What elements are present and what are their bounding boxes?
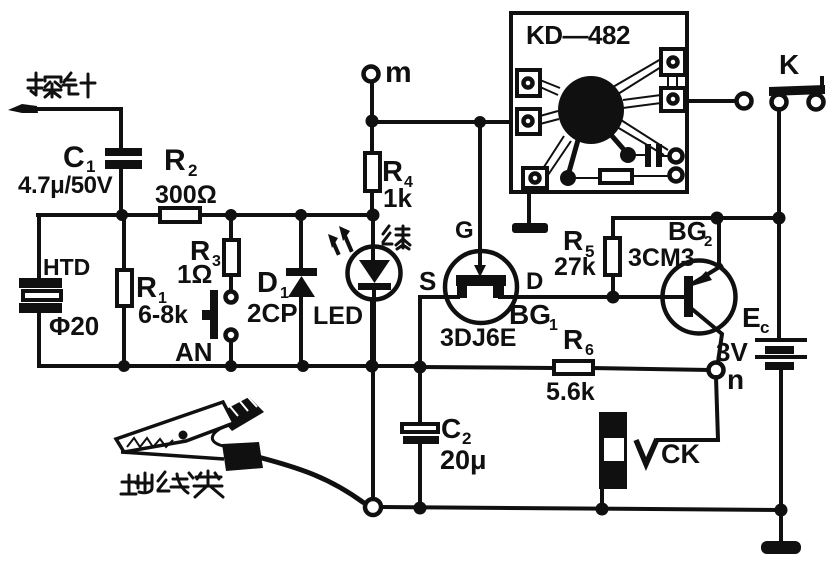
module solder dot 2 xyxy=(620,147,636,163)
svg-text:3CM3: 3CM3 xyxy=(628,244,695,272)
ground clip upper boot xyxy=(217,397,264,431)
wire probe to C1 xyxy=(30,109,121,149)
ground clip lower jaw xyxy=(121,452,224,459)
svg-text:D: D xyxy=(257,267,278,299)
svg-text:K: K xyxy=(779,49,799,80)
transistor BG1 (FET 3DJ6E) xyxy=(420,122,684,323)
svg-text:R: R xyxy=(563,324,583,355)
capacitor C2 xyxy=(402,367,439,508)
node BG2 emitter junction xyxy=(711,212,724,225)
svg-text:AN: AN xyxy=(175,337,213,367)
node battery column bottom xyxy=(775,504,788,517)
svg-text:HTD: HTD xyxy=(43,254,90,280)
node LED bottom junction xyxy=(366,360,379,373)
svg-text:BG: BG xyxy=(668,216,707,246)
top-left rail xyxy=(38,213,373,217)
module trace blob to lower-right ring xyxy=(617,120,668,155)
transistor BG2 (3CM3) xyxy=(663,218,736,362)
ground clip lower boot xyxy=(222,442,263,471)
resistor R1 xyxy=(117,215,132,366)
resistor R3 xyxy=(224,215,239,291)
svg-text:R: R xyxy=(136,272,157,304)
node C2 bottom xyxy=(414,502,427,515)
bottom-left rail xyxy=(39,364,420,368)
node C1/R1 junction xyxy=(116,209,128,221)
svg-text:20μ: 20μ xyxy=(440,445,487,475)
module trace blob to top-right pad xyxy=(613,59,661,94)
capacitor C1 plates xyxy=(105,148,142,156)
LED light arrows xyxy=(328,226,351,253)
svg-text:2CP: 2CP xyxy=(247,298,298,328)
ground under module xyxy=(512,223,548,233)
module trace blob to top-left pad xyxy=(540,80,560,95)
node output terminal circle xyxy=(737,94,752,109)
module solder dot 1 xyxy=(560,170,576,186)
svg-text:6: 6 xyxy=(585,342,594,359)
ground clip teeth xyxy=(127,438,173,447)
svg-text:300Ω: 300Ω xyxy=(155,181,217,209)
ground clip pivot xyxy=(179,431,188,440)
svg-text:CK: CK xyxy=(661,439,700,469)
module pad right (output) xyxy=(661,88,685,111)
node m/R4/trigger junction xyxy=(366,115,379,128)
jack CK contact V xyxy=(636,439,657,464)
battery Ec plates xyxy=(757,218,805,509)
diode D1 xyxy=(286,215,317,366)
probe arrow tip xyxy=(8,104,38,113)
module capacitor chip xyxy=(634,144,669,167)
node CK bottom xyxy=(596,503,609,516)
svg-text:G: G xyxy=(455,217,474,244)
node AN bottom xyxy=(225,360,237,372)
top-right rail xyxy=(613,216,779,220)
module trace pad link right xyxy=(668,75,677,88)
wire module ground xyxy=(527,192,531,223)
ground clip spring xyxy=(212,423,234,447)
wire trigger to KD-482 xyxy=(372,120,517,124)
svg-text:m: m xyxy=(385,56,412,89)
svg-text:C: C xyxy=(441,413,461,444)
svg-text:D: D xyxy=(526,268,543,295)
module pad left (trigger input) xyxy=(517,109,540,134)
svg-text:5.6k: 5.6k xyxy=(546,378,595,406)
jack CK xyxy=(599,412,627,509)
module leg to solder dot 1 xyxy=(569,140,578,172)
svg-text:3: 3 xyxy=(212,253,221,270)
wire m down xyxy=(370,82,374,122)
node R1 bottom xyxy=(118,360,130,372)
node R5/base junction xyxy=(607,291,620,304)
piezo element HTD plates xyxy=(19,278,62,288)
switch K xyxy=(769,78,825,110)
wire to ground xyxy=(779,510,783,542)
svg-text:E: E xyxy=(742,302,761,333)
ground clip wire curve xyxy=(258,457,364,503)
svg-text:C: C xyxy=(63,141,85,174)
svg-text:R: R xyxy=(563,225,583,256)
svg-text:R: R xyxy=(164,144,186,177)
module pad top-left xyxy=(517,70,540,96)
svg-text:27k: 27k xyxy=(554,253,596,281)
wire left column upper xyxy=(37,215,41,279)
svg-text:6-8k: 6-8k xyxy=(138,301,188,329)
module resistor chip xyxy=(576,170,669,183)
node n terminal xyxy=(709,363,724,378)
module KD-482 board outline xyxy=(511,13,687,192)
node gate branch junction xyxy=(474,116,486,128)
node LED/R4 junction xyxy=(367,209,380,222)
wire n to CK xyxy=(658,377,718,440)
svg-text:S: S xyxy=(419,266,436,296)
module pad bottom-left (ground) xyxy=(523,168,547,188)
svg-text:1: 1 xyxy=(549,317,558,334)
node S/R6/C2 junction xyxy=(414,361,427,374)
node m terminal xyxy=(364,67,379,82)
module ring lower-right 2 xyxy=(670,169,683,182)
resistor R4 xyxy=(365,122,380,215)
svg-text:3V: 3V xyxy=(716,337,748,367)
node ground-clip terminal xyxy=(365,499,381,515)
ground (battery negative) xyxy=(761,541,801,554)
svg-text:LED: LED xyxy=(313,302,363,330)
module ring lower-right 1 xyxy=(670,150,683,163)
label 探针 (probe) xyxy=(28,73,95,97)
resistor R6 (inline) xyxy=(420,361,708,374)
node D1 bottom xyxy=(297,360,309,372)
label 绿 (green) xyxy=(383,226,410,249)
svg-text:4.7μ/50V: 4.7μ/50V xyxy=(18,172,113,199)
wire module output xyxy=(687,99,736,103)
wire left column lower xyxy=(37,313,41,366)
svg-text:3DJ6E: 3DJ6E xyxy=(440,324,516,352)
module trace blob to right pad xyxy=(623,95,661,108)
wire LED column to clip node xyxy=(372,299,373,500)
node D1 top junction xyxy=(295,209,307,221)
svg-text:1k: 1k xyxy=(383,183,412,213)
module leg to solder dot 2 xyxy=(612,136,626,152)
module pad top-right xyxy=(661,49,685,75)
node K column junction xyxy=(773,212,786,225)
svg-text:1Ω: 1Ω xyxy=(177,259,212,289)
svg-text:c: c xyxy=(760,318,769,337)
ground clip upper jaw xyxy=(116,402,234,452)
wire K down xyxy=(777,109,781,218)
bottom rail xyxy=(380,507,781,510)
svg-text:2: 2 xyxy=(188,161,197,180)
svg-text:n: n xyxy=(727,364,744,395)
module chip blob xyxy=(558,76,624,144)
wire S column xyxy=(418,297,422,368)
resistor R2 (inline on rail) xyxy=(160,208,200,222)
label 地线夹 (ground clip) xyxy=(121,471,223,497)
wire C1 bottom to rail xyxy=(119,169,123,216)
module trace blob to left pad xyxy=(540,111,559,124)
node R3 top junction xyxy=(225,209,237,221)
svg-text:2: 2 xyxy=(704,233,712,250)
LED (green) xyxy=(348,215,401,366)
svg-text:Φ20: Φ20 xyxy=(49,311,99,341)
pushbutton switch AN xyxy=(202,290,237,366)
resistor R5 xyxy=(605,218,620,297)
module trace blob to bottom-left pad xyxy=(542,136,571,175)
svg-text:KD—482: KD—482 xyxy=(526,20,630,50)
